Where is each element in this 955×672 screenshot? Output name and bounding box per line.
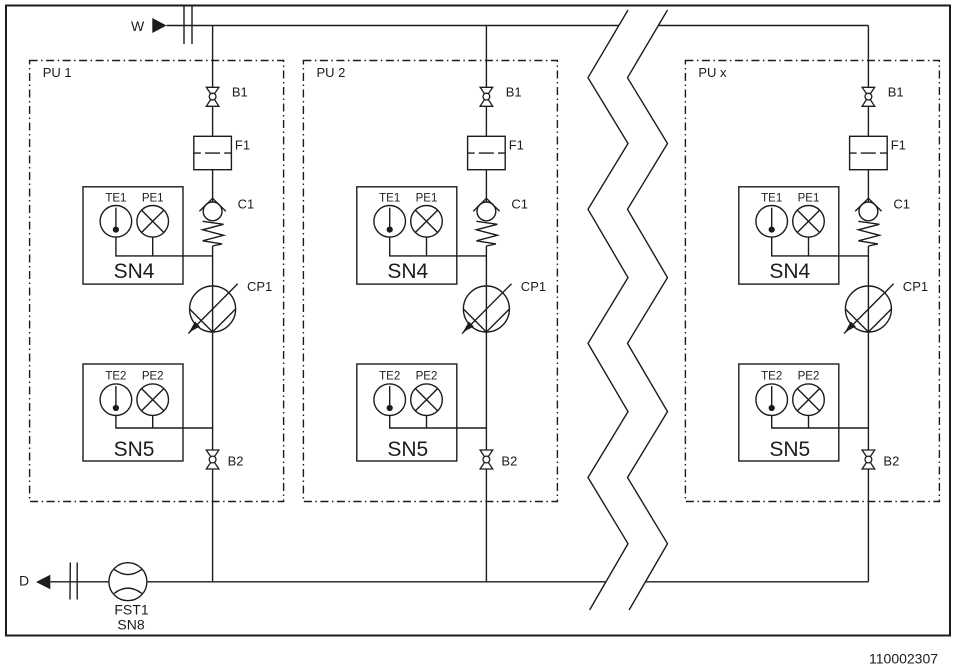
- svg-text:SN8: SN8: [117, 617, 144, 633]
- svg-text:PU x: PU x: [698, 65, 727, 80]
- svg-text:D: D: [19, 572, 29, 588]
- svg-text:PU 2: PU 2: [317, 65, 346, 80]
- svg-text:W: W: [131, 18, 145, 34]
- svg-text:PU 1: PU 1: [43, 65, 72, 80]
- svg-text:110002307: 110002307: [869, 650, 938, 666]
- svg-text:FST1: FST1: [114, 602, 148, 618]
